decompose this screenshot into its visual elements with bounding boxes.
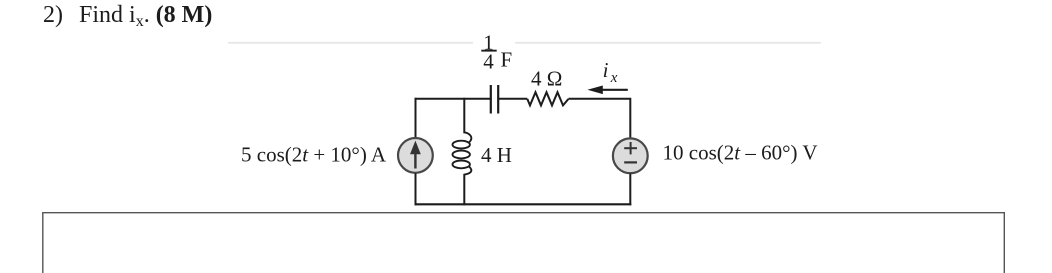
wire: inductor branch vertical below coil <box>463 174 465 206</box>
svg-text:4 H: 4 H <box>481 143 512 167</box>
svg-text:Find ix. (8 M): Find ix. (8 M) <box>79 2 212 30</box>
capacitor value label 1/4 F <box>481 31 512 74</box>
current source IS 5cos(2t+10) A <box>398 138 433 173</box>
answer box (open at bottom) <box>43 213 1005 273</box>
svg-text:2): 2) <box>43 2 63 28</box>
current arrow label i_x <box>603 58 618 86</box>
horizontal rule (right segment) <box>515 42 821 44</box>
svg-text:F: F <box>501 48 513 72</box>
svg-text:i: i <box>603 58 609 82</box>
svg-text:10 cos(2t – 60°) V: 10 cos(2t – 60°) V <box>663 141 818 165</box>
wire: right branch vertical below voltage source <box>629 174 631 206</box>
capacitor C 1/4 F <box>491 85 498 114</box>
svg-text:5 cos(2t + 10°) A: 5 cos(2t + 10°) A <box>241 143 387 167</box>
wire: left branch vertical above current source <box>415 98 417 138</box>
wire: resistor to top-right corner and down <box>568 99 631 139</box>
resistor R 4ohm zigzag <box>527 92 568 105</box>
problem title text <box>43 2 212 30</box>
svg-text:4: 4 <box>483 50 494 74</box>
svg-text:x: x <box>610 70 618 86</box>
wire: bottom rail <box>415 203 632 205</box>
wire: capacitor to resistor <box>498 98 527 100</box>
wire: top-left segment (node top-left to capacitor) <box>416 98 492 99</box>
horizontal rule (left segment) <box>228 42 473 44</box>
current arrow i_x <box>587 86 627 95</box>
svg-text:4 Ω: 4 Ω <box>531 66 562 90</box>
wire: left branch vertical below current source <box>415 173 417 205</box>
inductor L 4H coil <box>453 132 472 174</box>
voltage source VS 10cos(2t-60) V <box>613 138 648 173</box>
wire: inductor branch vertical above coil <box>463 98 465 134</box>
